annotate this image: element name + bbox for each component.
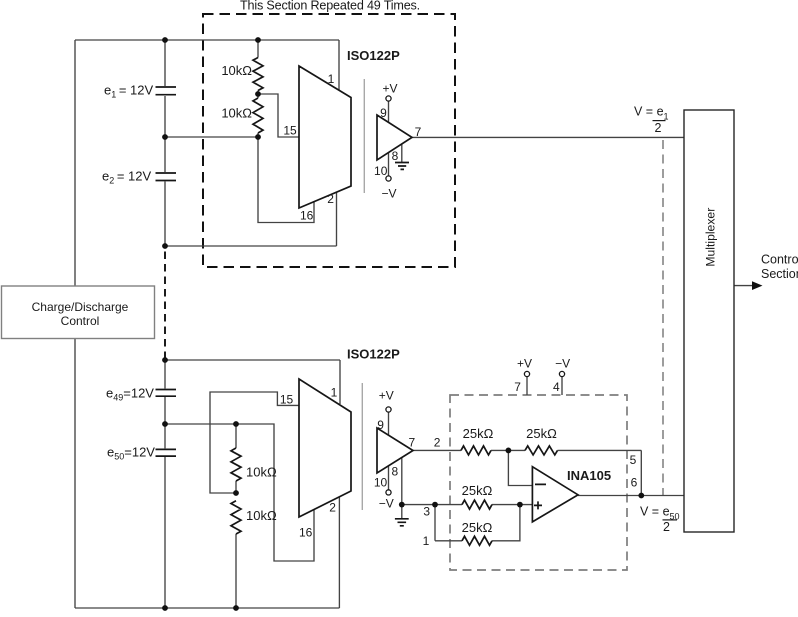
svg-text:6: 6 — [631, 475, 638, 489]
svg-text:−V: −V — [555, 357, 570, 371]
svg-text:3: 3 — [423, 505, 430, 519]
svg-text:+V: +V — [379, 389, 394, 403]
svg-text:7: 7 — [409, 435, 416, 449]
svg-text:2: 2 — [655, 121, 662, 135]
svg-text:Charge/Discharge: Charge/Discharge — [32, 300, 129, 314]
svg-text:8: 8 — [392, 149, 399, 163]
svg-text:−V: −V — [379, 497, 394, 511]
svg-text:16: 16 — [300, 209, 314, 223]
svg-text:Multiplexer: Multiplexer — [703, 208, 717, 267]
svg-text:10kΩ: 10kΩ — [221, 106, 252, 121]
svg-text:INA105: INA105 — [567, 468, 611, 483]
svg-text:9: 9 — [380, 106, 387, 120]
svg-text:−V: −V — [381, 187, 396, 201]
svg-text:Section: Section — [761, 267, 798, 281]
svg-text:10: 10 — [374, 475, 388, 489]
svg-text:25kΩ: 25kΩ — [526, 426, 557, 441]
svg-text:2: 2 — [327, 192, 334, 206]
svg-text:10kΩ: 10kΩ — [246, 508, 277, 523]
svg-text:1: 1 — [328, 72, 335, 86]
svg-text:2: 2 — [663, 520, 670, 534]
svg-text:25kΩ: 25kΩ — [463, 426, 494, 441]
svg-text:15: 15 — [283, 124, 297, 138]
svg-text:+V: +V — [517, 357, 532, 371]
svg-text:2: 2 — [329, 501, 336, 515]
svg-text:16: 16 — [299, 526, 313, 540]
svg-text:5: 5 — [630, 453, 637, 467]
svg-text:10kΩ: 10kΩ — [246, 465, 277, 480]
svg-text:10kΩ: 10kΩ — [221, 63, 252, 78]
svg-text:9: 9 — [377, 418, 384, 432]
svg-text:8: 8 — [392, 465, 399, 479]
svg-text:2: 2 — [434, 435, 441, 449]
svg-text:Control: Control — [61, 314, 100, 328]
svg-text:+V: +V — [382, 82, 397, 96]
svg-text:10: 10 — [374, 164, 388, 178]
svg-text:ISO122P: ISO122P — [347, 347, 400, 362]
svg-text:7: 7 — [415, 125, 422, 139]
svg-text:25kΩ: 25kΩ — [462, 520, 493, 535]
svg-text:4: 4 — [553, 380, 560, 394]
svg-text:1: 1 — [331, 386, 338, 400]
svg-text:This Section Repeated 49 Times: This Section Repeated 49 Times. — [240, 0, 420, 13]
svg-text:ISO122P: ISO122P — [347, 48, 400, 63]
svg-text:15: 15 — [280, 393, 294, 407]
svg-text:7: 7 — [514, 380, 521, 394]
svg-text:1: 1 — [423, 534, 430, 548]
svg-text:Control: Control — [761, 252, 798, 266]
svg-text:25kΩ: 25kΩ — [462, 483, 493, 498]
